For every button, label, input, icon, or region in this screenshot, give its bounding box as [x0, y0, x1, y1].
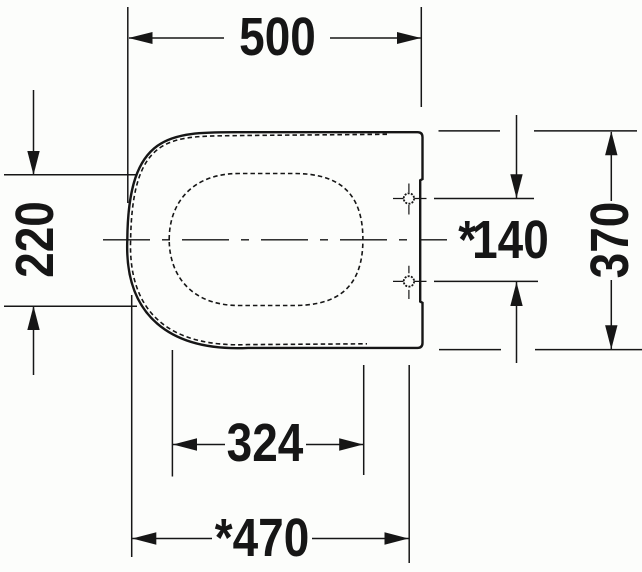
svg-text:324: 324	[227, 413, 304, 473]
svg-text:370: 370	[580, 202, 640, 279]
svg-text:220: 220	[5, 201, 65, 278]
svg-text:*470: *470	[215, 508, 310, 568]
svg-text:140: 140	[472, 210, 549, 270]
svg-text:500: 500	[239, 7, 316, 67]
